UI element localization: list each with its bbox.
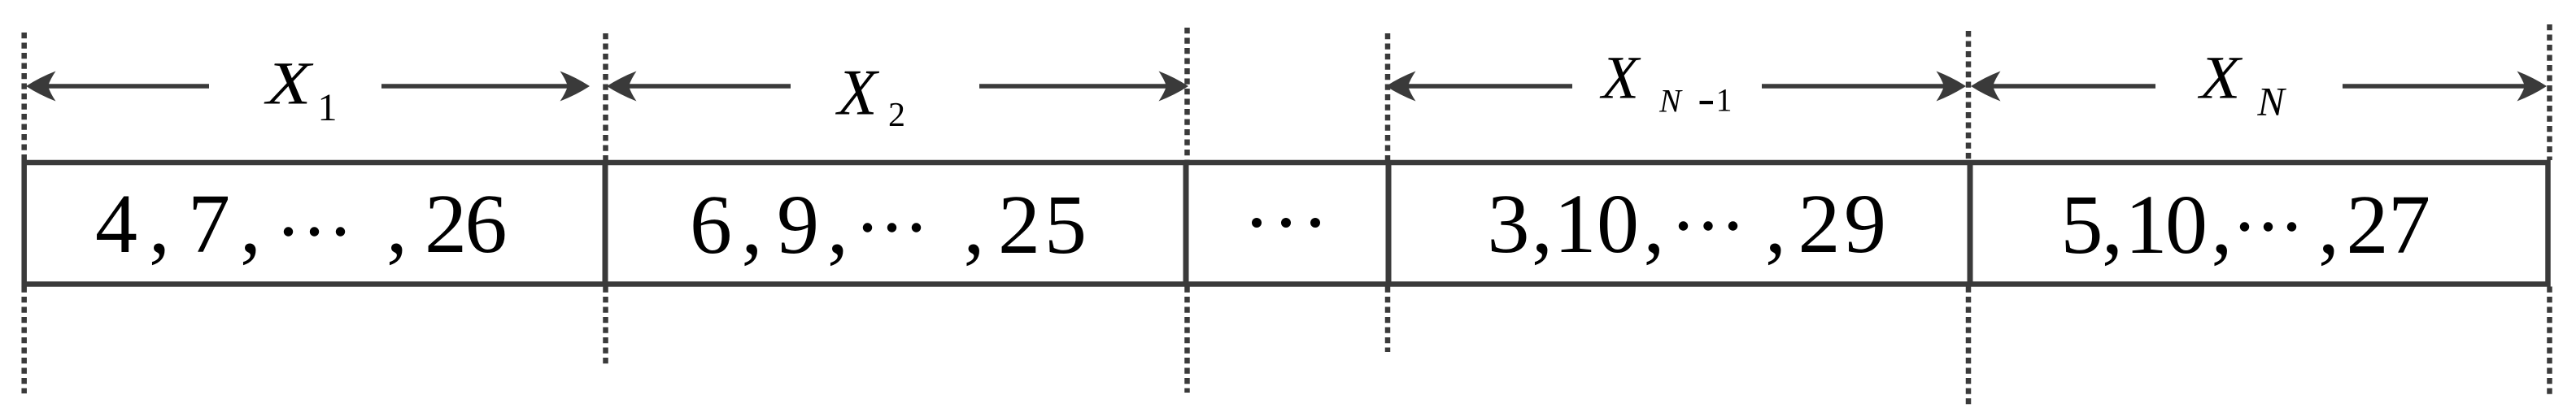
arrow X2 left head <box>607 72 637 102</box>
svg-text:6: 6 <box>465 177 508 271</box>
sequence box outline <box>24 163 2548 285</box>
dotted boundary line 4 upper <box>1385 33 1391 160</box>
svg-text:2: 2 <box>425 177 467 271</box>
dotted boundary line 5 lower <box>1966 287 1972 408</box>
svg-text:2: 2 <box>888 97 905 134</box>
svg-text:2: 2 <box>998 178 1040 271</box>
dotted boundary line 4 lower <box>1385 287 1391 353</box>
cell divider 5 <box>1968 162 1973 285</box>
svg-text:6: 6 <box>690 178 732 271</box>
svg-text:0: 0 <box>2165 178 2208 271</box>
svg-text:5: 5 <box>1044 178 1087 271</box>
svg-text:2: 2 <box>1798 177 1841 271</box>
dotted boundary line 1 (left) upper <box>21 33 27 160</box>
svg-text:,: , <box>1644 177 1665 271</box>
svg-text:,: , <box>742 178 763 271</box>
dotted boundary line 6 (right) upper <box>2547 24 2552 160</box>
svg-text:N: N <box>2256 79 2286 124</box>
svg-text:,: , <box>240 177 261 271</box>
arrow XN right shaft <box>2343 84 2530 89</box>
cell 2 text: 6 , 9 , ... , 2 5 <box>690 178 1087 271</box>
arrow X2 right head <box>1159 72 1189 102</box>
svg-text:1: 1 <box>318 86 338 129</box>
svg-text:,: , <box>827 178 848 271</box>
svg-text:3: 3 <box>1488 177 1530 271</box>
cell 5 dots <box>2240 222 2296 231</box>
cell divider 4 <box>1386 162 1392 285</box>
svg-text:5: 5 <box>2061 178 2103 271</box>
svg-text:,: , <box>1532 177 1553 271</box>
arrow XN-1 right head <box>1937 72 1967 102</box>
svg-text:,: , <box>149 177 170 271</box>
arrow X2 right shaft <box>979 84 1171 89</box>
arrow XN-1 left shaft <box>1397 84 1572 89</box>
svg-text:X: X <box>2197 45 2243 112</box>
arrow X2 left shaft <box>618 84 791 89</box>
svg-text:2: 2 <box>2347 178 2389 271</box>
arrow XN left shaft <box>1982 84 2155 89</box>
svg-text:,: , <box>2318 178 2339 271</box>
svg-text:0: 0 <box>1597 177 1639 271</box>
svg-text:,: , <box>964 178 985 271</box>
svg-text:4: 4 <box>95 177 137 271</box>
arrow X1 left shaft <box>37 84 209 89</box>
cell divider 2 <box>603 162 608 285</box>
svg-text:,: , <box>386 177 408 271</box>
svg-text:,: , <box>1765 177 1786 271</box>
dotted boundary line 3 lower <box>1184 287 1190 393</box>
svg-text:9: 9 <box>1844 177 1886 271</box>
cell 5 text: 5 , 1 0 , ... , 2 7 <box>2061 178 2431 271</box>
dotted boundary line 6 (right) lower <box>2547 287 2552 399</box>
dotted boundary line 5 upper <box>1966 31 1972 160</box>
svg-text:X: X <box>264 50 314 118</box>
svg-text:1: 1 <box>1716 82 1733 119</box>
cell 1 text: 4 , 7 , ... , 2 6 <box>95 177 508 271</box>
arrow XN-1 left head <box>1386 72 1416 102</box>
cell 3 dots <box>1252 218 1320 228</box>
cell 4 text: 3 , 1 0 , ... , 2 9 <box>1488 177 1887 271</box>
svg-text:X: X <box>1599 45 1641 112</box>
cell 2 dots <box>863 223 921 232</box>
dotted boundary line 2 upper <box>603 33 608 160</box>
label XN-1 subscript minus <box>1700 101 1714 104</box>
svg-text:7: 7 <box>188 177 230 271</box>
cell 1 dots <box>284 227 345 236</box>
svg-text:,: , <box>2102 178 2123 271</box>
arrow X1 right head <box>560 72 591 102</box>
cell 4 dots <box>1679 221 1737 230</box>
arrow XN-1 right shaft <box>1762 84 1951 89</box>
cell divider 3 <box>1183 162 1189 285</box>
dotted boundary line 1 (left) lower <box>21 287 27 394</box>
dotted boundary line 3 upper <box>1184 28 1190 160</box>
svg-text:7: 7 <box>2388 178 2430 271</box>
svg-text:N: N <box>1658 83 1683 119</box>
arrow XN right head <box>2517 72 2548 102</box>
svg-text:1: 1 <box>2125 178 2168 271</box>
svg-text:9: 9 <box>777 178 819 271</box>
arrow X1 right shaft <box>381 84 569 89</box>
dotted boundary line 2 lower <box>603 287 608 367</box>
arrow X1 left head <box>26 72 56 102</box>
arrow XN left head <box>1971 72 2001 102</box>
svg-text:1: 1 <box>1554 177 1597 271</box>
svg-text:X: X <box>835 58 880 129</box>
svg-text:,: , <box>2212 178 2233 271</box>
